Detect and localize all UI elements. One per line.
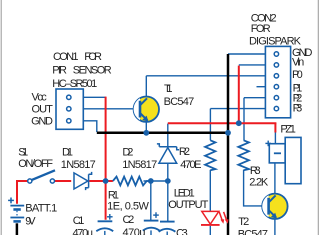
svg-text:R2: R2 bbox=[179, 146, 190, 158]
svg-text:P0: P0 bbox=[292, 69, 303, 81]
svg-text:CON1: CON1 bbox=[53, 51, 79, 63]
svg-text:BATT.1: BATT.1 bbox=[25, 203, 57, 215]
svg-text:T2: T2 bbox=[238, 216, 249, 228]
svg-text:ON/OFF: ON/OFF bbox=[18, 158, 53, 170]
svg-text:GND: GND bbox=[31, 116, 53, 128]
svg-text:PIR: PIR bbox=[52, 65, 67, 77]
svg-text:2.2K: 2.2K bbox=[249, 176, 269, 188]
svg-text:DIGISPARK: DIGISPARK bbox=[249, 35, 302, 47]
svg-text:S1: S1 bbox=[18, 146, 28, 158]
svg-text:1N5817: 1N5817 bbox=[61, 159, 96, 171]
svg-text:SENSOR: SENSOR bbox=[73, 65, 112, 77]
svg-text:T1: T1 bbox=[164, 83, 173, 95]
svg-text:HC–SR501: HC–SR501 bbox=[52, 78, 97, 90]
svg-text:1N5817: 1N5817 bbox=[122, 159, 157, 171]
svg-text:D1: D1 bbox=[62, 146, 73, 158]
svg-text:470u: 470u bbox=[123, 227, 146, 235]
svg-text:C2: C2 bbox=[123, 214, 135, 226]
svg-text:9V: 9V bbox=[25, 216, 36, 228]
svg-text:FOR: FOR bbox=[84, 51, 102, 63]
svg-text:OUTPUT: OUTPUT bbox=[168, 199, 208, 211]
svg-text:BC547: BC547 bbox=[238, 229, 268, 235]
svg-text:P3: P3 bbox=[293, 103, 303, 115]
svg-text:Vin: Vin bbox=[292, 57, 304, 69]
svg-text:R3: R3 bbox=[250, 165, 261, 177]
svg-text:FOR: FOR bbox=[251, 23, 271, 35]
svg-text:PZ1: PZ1 bbox=[280, 124, 296, 136]
svg-text:470E: 470E bbox=[180, 159, 201, 171]
svg-text:LED1: LED1 bbox=[174, 188, 195, 200]
svg-text:D2: D2 bbox=[122, 146, 133, 158]
svg-text:470u: 470u bbox=[73, 227, 94, 235]
svg-text:1E, 0.5W: 1E, 0.5W bbox=[107, 200, 149, 212]
svg-text:OUT: OUT bbox=[32, 103, 54, 115]
svg-text:C3: C3 bbox=[176, 227, 188, 235]
svg-text:C1: C1 bbox=[73, 215, 85, 227]
svg-text:Vcc: Vcc bbox=[32, 91, 48, 103]
svg-text:BC547: BC547 bbox=[164, 96, 195, 108]
